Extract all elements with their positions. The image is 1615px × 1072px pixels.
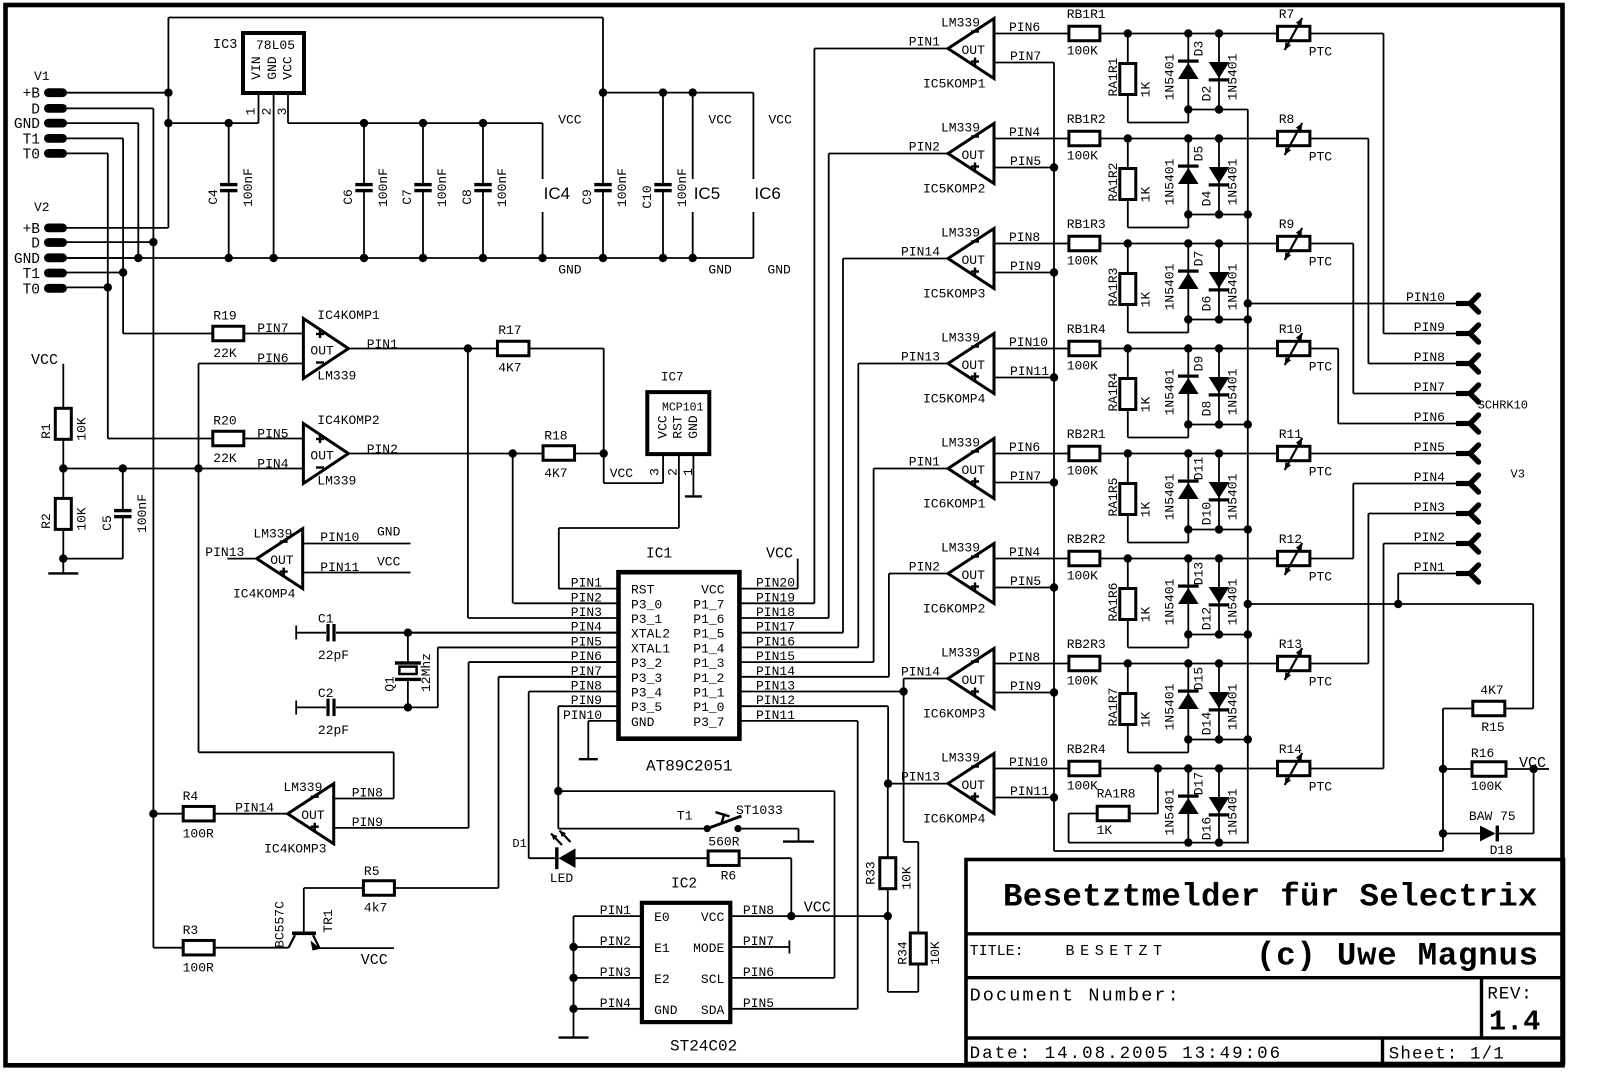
svg-text:3: 3 <box>275 108 290 116</box>
svg-text:VCC: VCC <box>708 112 732 127</box>
svg-text:100K: 100K <box>1067 149 1098 164</box>
svg-text:PIN6: PIN6 <box>257 351 288 366</box>
svg-text:10K: 10K <box>75 417 90 441</box>
svg-text:IC4KOMP2: IC4KOMP2 <box>317 413 379 428</box>
svg-text:VCC: VCC <box>281 56 296 80</box>
svg-text:OUT: OUT <box>962 778 986 793</box>
svg-text:LM339: LM339 <box>941 751 980 766</box>
svg-text:VCC: VCC <box>1519 755 1546 772</box>
svg-text:PIN8: PIN8 <box>1414 350 1445 365</box>
svg-text:GND: GND <box>708 263 732 278</box>
svg-text:LM339: LM339 <box>317 473 356 488</box>
svg-text:LM339: LM339 <box>941 646 980 661</box>
svg-text:Besetztmelder für Selectrix: Besetztmelder für Selectrix <box>1003 879 1538 916</box>
svg-text:1K: 1K <box>1139 292 1154 308</box>
svg-text:R33: R33 <box>863 861 878 884</box>
svg-text:2: 2 <box>666 468 681 476</box>
svg-text:PIN8: PIN8 <box>1009 230 1040 245</box>
svg-text:PTC: PTC <box>1309 150 1333 165</box>
svg-text:P1_7: P1_7 <box>693 597 724 612</box>
svg-text:R6: R6 <box>721 869 737 884</box>
svg-text:1N5401: 1N5401 <box>1226 473 1241 520</box>
svg-text:SCHRK10: SCHRK10 <box>1478 399 1528 413</box>
svg-text:R19: R19 <box>213 308 236 323</box>
svg-text:P3_4: P3_4 <box>631 686 662 701</box>
svg-text:C8: C8 <box>460 189 475 205</box>
svg-text:BESETZT: BESETZT <box>1066 943 1168 960</box>
svg-text:RST: RST <box>631 583 655 598</box>
svg-text:PIN10: PIN10 <box>1009 335 1048 350</box>
svg-text:RB1R2: RB1R2 <box>1067 112 1106 127</box>
svg-text:PIN1: PIN1 <box>1414 560 1445 575</box>
svg-text:100K: 100K <box>1471 779 1502 794</box>
svg-text:1K: 1K <box>1139 397 1154 413</box>
svg-text:D18: D18 <box>1490 843 1513 858</box>
svg-text:RA1R6: RA1R6 <box>1106 582 1121 621</box>
svg-text:PIN14: PIN14 <box>901 665 940 680</box>
svg-text:LED: LED <box>550 871 574 886</box>
svg-text:OUT: OUT <box>310 344 334 359</box>
svg-text:+B: +B <box>23 87 41 103</box>
svg-text:100K: 100K <box>1067 359 1098 374</box>
svg-text:D16: D16 <box>1199 817 1214 840</box>
svg-text:R18: R18 <box>544 428 567 443</box>
svg-text:10K: 10K <box>75 507 90 531</box>
svg-text:PIN7: PIN7 <box>1010 469 1041 484</box>
svg-text:RA1R5: RA1R5 <box>1106 477 1121 516</box>
svg-text:ST24C02: ST24C02 <box>670 1038 737 1056</box>
svg-text:PIN6: PIN6 <box>1009 440 1040 455</box>
svg-text:(c) Uwe Magnus: (c) Uwe Magnus <box>1256 938 1539 975</box>
svg-text:100nF: 100nF <box>376 168 391 207</box>
svg-text:D15: D15 <box>1192 667 1207 690</box>
svg-text:1N5401: 1N5401 <box>1163 263 1178 310</box>
svg-text:OUT: OUT <box>310 449 334 464</box>
svg-text:PIN9: PIN9 <box>1414 320 1445 335</box>
svg-text:100R: 100R <box>183 961 214 976</box>
svg-text:IC1: IC1 <box>646 547 672 563</box>
svg-text:GND: GND <box>631 715 655 730</box>
svg-text:PIN8: PIN8 <box>1009 650 1040 665</box>
svg-text:VCC: VCC <box>701 910 725 925</box>
svg-text:R34: R34 <box>896 941 911 965</box>
svg-text:PTC: PTC <box>1309 465 1333 480</box>
svg-text:C10: C10 <box>640 185 655 208</box>
svg-text:100K: 100K <box>1067 569 1098 584</box>
svg-text:R14: R14 <box>1279 742 1303 757</box>
svg-text:PIN2: PIN2 <box>909 140 940 155</box>
svg-text:100K: 100K <box>1067 674 1098 689</box>
svg-text:OUT: OUT <box>270 553 294 568</box>
svg-text:1N5401: 1N5401 <box>1226 263 1241 310</box>
svg-text:PIN1: PIN1 <box>367 337 398 352</box>
svg-text:E0: E0 <box>654 910 670 925</box>
svg-text:R16: R16 <box>1471 746 1494 761</box>
svg-text:GND: GND <box>14 117 40 133</box>
svg-text:VCC: VCC <box>701 583 725 598</box>
svg-text:R2: R2 <box>39 513 54 529</box>
svg-text:LM339: LM339 <box>283 780 322 795</box>
svg-text:RA1R1: RA1R1 <box>1106 57 1121 96</box>
svg-text:D3: D3 <box>1192 41 1207 57</box>
svg-text:VIN: VIN <box>249 56 264 79</box>
svg-text:IC6KOMP4: IC6KOMP4 <box>923 812 986 827</box>
svg-text:RB1R1: RB1R1 <box>1067 7 1106 22</box>
svg-text:T0: T0 <box>23 282 40 298</box>
svg-text:IC5KOMP3: IC5KOMP3 <box>923 287 985 302</box>
svg-text:IC6: IC6 <box>754 184 780 203</box>
svg-text:C1: C1 <box>318 612 334 627</box>
svg-text:VCC: VCC <box>766 546 793 563</box>
svg-text:P3_3: P3_3 <box>631 671 662 686</box>
svg-text:10K: 10K <box>928 941 943 965</box>
svg-text:XTAL1: XTAL1 <box>631 641 670 656</box>
svg-text:IC6KOMP1: IC6KOMP1 <box>923 497 986 512</box>
svg-text:PIN4: PIN4 <box>1009 125 1040 140</box>
svg-text:R9: R9 <box>1279 217 1295 232</box>
svg-text:V1: V1 <box>34 69 50 84</box>
svg-text:PIN11: PIN11 <box>1010 364 1049 379</box>
svg-text:R7: R7 <box>1279 7 1295 22</box>
svg-text:TR1: TR1 <box>321 909 336 933</box>
svg-text:Date: 14.08.2005 13:49:06: Date: 14.08.2005 13:49:06 <box>970 1044 1283 1064</box>
svg-text:P1_5: P1_5 <box>693 627 724 642</box>
svg-text:R11: R11 <box>1279 427 1303 442</box>
svg-text:RB1R4: RB1R4 <box>1067 322 1106 337</box>
svg-text:T1: T1 <box>677 808 693 823</box>
svg-text:IC6KOMP3: IC6KOMP3 <box>923 707 985 722</box>
svg-text:PIN11: PIN11 <box>1010 784 1049 799</box>
svg-text:R4: R4 <box>183 789 199 804</box>
svg-text:SDA: SDA <box>701 1003 725 1018</box>
svg-text:P1_3: P1_3 <box>693 656 724 671</box>
svg-text:C4: C4 <box>206 189 221 205</box>
svg-text:C9: C9 <box>580 189 595 205</box>
svg-text:PTC: PTC <box>1309 45 1333 60</box>
svg-text:PIN10: PIN10 <box>320 530 359 545</box>
svg-text:1N5401: 1N5401 <box>1163 368 1178 415</box>
svg-text:1N5401: 1N5401 <box>1163 53 1178 100</box>
svg-text:R17: R17 <box>498 323 521 338</box>
svg-text:OUT: OUT <box>962 463 986 478</box>
svg-text:C6: C6 <box>341 189 356 205</box>
svg-text:PIN8: PIN8 <box>352 786 383 801</box>
svg-text:D5: D5 <box>1192 146 1207 162</box>
svg-text:RA1R7: RA1R7 <box>1106 687 1121 726</box>
svg-text:PIN4: PIN4 <box>257 456 288 471</box>
svg-text:100R: 100R <box>183 827 214 842</box>
svg-text:OUT: OUT <box>962 253 986 268</box>
svg-text:4k7: 4k7 <box>364 901 387 916</box>
svg-text:1K: 1K <box>1139 82 1154 98</box>
svg-text:1K: 1K <box>1097 823 1113 838</box>
svg-text:PIN1: PIN1 <box>909 455 940 470</box>
svg-text:D4: D4 <box>1199 191 1214 207</box>
svg-text:100nF: 100nF <box>615 168 630 207</box>
svg-text:P1_4: P1_4 <box>693 641 724 656</box>
svg-text:P3_2: P3_2 <box>631 656 662 671</box>
svg-text:1K: 1K <box>1139 607 1154 623</box>
svg-text:PIN7: PIN7 <box>1010 49 1041 64</box>
svg-text:BAW 75: BAW 75 <box>1469 809 1516 824</box>
svg-text:D11: D11 <box>1192 457 1207 481</box>
svg-text:PIN6: PIN6 <box>1009 20 1040 35</box>
svg-text:P1_2: P1_2 <box>693 671 724 686</box>
svg-text:D17: D17 <box>1192 772 1207 795</box>
svg-text:1K: 1K <box>1139 502 1154 518</box>
svg-text:PIN1: PIN1 <box>909 35 940 50</box>
svg-text:PIN13: PIN13 <box>901 350 940 365</box>
svg-text:22K: 22K <box>213 346 237 361</box>
svg-text:IC5: IC5 <box>694 184 720 203</box>
svg-text:22pF: 22pF <box>318 723 349 738</box>
svg-text:R3: R3 <box>183 923 199 938</box>
svg-text:IC5KOMP2: IC5KOMP2 <box>923 182 985 197</box>
svg-text:R12: R12 <box>1279 532 1302 547</box>
svg-text:D12: D12 <box>1199 607 1214 630</box>
svg-text:78L05: 78L05 <box>256 38 295 53</box>
svg-text:LM339: LM339 <box>253 527 292 542</box>
svg-text:100K: 100K <box>1067 254 1098 269</box>
svg-text:GND: GND <box>558 263 582 278</box>
svg-text:BC557C: BC557C <box>273 901 288 948</box>
svg-text:PTC: PTC <box>1309 255 1333 270</box>
svg-text:D: D <box>31 237 40 253</box>
svg-text:PIN5: PIN5 <box>1010 574 1041 589</box>
svg-text:100nF: 100nF <box>135 494 150 533</box>
svg-text:IC4KOMP3: IC4KOMP3 <box>264 842 326 857</box>
svg-text:AT89C2051: AT89C2051 <box>646 758 732 776</box>
svg-text:560R: 560R <box>708 834 739 849</box>
svg-text:OUT: OUT <box>962 568 986 583</box>
svg-text:P1_1: P1_1 <box>693 686 724 701</box>
svg-text:PIN4: PIN4 <box>1009 545 1040 560</box>
svg-text:GND: GND <box>654 1003 678 1018</box>
svg-text:PIN9: PIN9 <box>1010 679 1041 694</box>
svg-text:LM339: LM339 <box>941 121 980 136</box>
svg-text:RB2R2: RB2R2 <box>1067 532 1106 547</box>
svg-text:V3: V3 <box>1511 468 1525 482</box>
svg-text:C2: C2 <box>318 686 334 701</box>
svg-text:R20: R20 <box>213 413 236 428</box>
svg-text:R8: R8 <box>1279 112 1295 127</box>
svg-text:IC2: IC2 <box>671 877 697 893</box>
svg-text:IC6KOMP2: IC6KOMP2 <box>923 602 985 617</box>
svg-text:D8: D8 <box>1199 401 1214 417</box>
svg-text:PIN5: PIN5 <box>1414 440 1445 455</box>
svg-text:GND: GND <box>265 56 280 80</box>
svg-text:100nF: 100nF <box>675 168 690 207</box>
svg-text:D6: D6 <box>1199 296 1214 312</box>
svg-text:REV:: REV: <box>1487 985 1532 1005</box>
svg-text:PIN10: PIN10 <box>1406 290 1445 305</box>
svg-text:1N5401: 1N5401 <box>1226 53 1241 100</box>
svg-text:1N5401: 1N5401 <box>1226 683 1241 730</box>
svg-text:IC4: IC4 <box>544 184 570 203</box>
svg-text:MODE: MODE <box>693 941 724 956</box>
svg-text:PIN4: PIN4 <box>1414 470 1445 485</box>
svg-text:RA1R3: RA1R3 <box>1106 267 1121 306</box>
svg-text:PIN9: PIN9 <box>1010 259 1041 274</box>
svg-text:PTC: PTC <box>1309 675 1333 690</box>
svg-text:T1: T1 <box>23 267 40 283</box>
svg-text:PIN3: PIN3 <box>1414 500 1445 515</box>
svg-text:R13: R13 <box>1279 637 1302 652</box>
svg-text:1N5401: 1N5401 <box>1163 158 1178 205</box>
svg-text:PTC: PTC <box>1309 780 1333 795</box>
svg-text:RA1R8: RA1R8 <box>1097 787 1136 802</box>
svg-text:RB2R4: RB2R4 <box>1067 742 1106 757</box>
svg-text:OUT: OUT <box>962 148 986 163</box>
svg-text:PIN2: PIN2 <box>367 442 398 457</box>
svg-text:PIN11: PIN11 <box>320 560 359 575</box>
svg-text:OUT: OUT <box>962 673 986 688</box>
svg-text:1.4: 1.4 <box>1489 1006 1540 1039</box>
svg-text:VCC: VCC <box>804 899 831 916</box>
svg-text:1K: 1K <box>1139 187 1154 203</box>
svg-text:4K7: 4K7 <box>1480 683 1503 698</box>
svg-text:E1: E1 <box>654 941 670 956</box>
svg-text:RB2R1: RB2R1 <box>1067 427 1106 442</box>
svg-text:R15: R15 <box>1481 720 1504 735</box>
svg-text:P3_1: P3_1 <box>631 612 662 627</box>
svg-text:Q1: Q1 <box>383 676 398 692</box>
svg-text:IC4KOMP4: IC4KOMP4 <box>233 587 296 602</box>
svg-text:PIN10: PIN10 <box>1009 755 1048 770</box>
svg-text:Document Number:: Document Number: <box>970 986 1181 1007</box>
svg-text:3: 3 <box>648 468 663 476</box>
svg-text:VCC: VCC <box>361 952 388 969</box>
svg-text:VCC: VCC <box>377 554 401 569</box>
svg-text:1N5401: 1N5401 <box>1226 578 1241 625</box>
svg-text:OUT: OUT <box>301 808 325 823</box>
svg-text:RA1R4: RA1R4 <box>1106 372 1121 411</box>
svg-text:LM339: LM339 <box>941 436 980 451</box>
svg-text:PIN2: PIN2 <box>1414 530 1445 545</box>
svg-text:R5: R5 <box>364 864 380 879</box>
svg-text:P3_7: P3_7 <box>693 715 724 730</box>
svg-text:TITLE:: TITLE: <box>970 943 1024 960</box>
svg-text:T0: T0 <box>23 147 40 163</box>
svg-text:D9: D9 <box>1192 356 1207 372</box>
svg-text:OUT: OUT <box>962 43 986 58</box>
svg-text:LM339: LM339 <box>941 226 980 241</box>
svg-text:4K7: 4K7 <box>544 466 567 481</box>
svg-text:Sheet: 1/1: Sheet: 1/1 <box>1389 1045 1505 1065</box>
svg-text:PTC: PTC <box>1309 360 1333 375</box>
svg-text:GND: GND <box>686 415 701 439</box>
svg-text:VCC: VCC <box>558 112 582 127</box>
svg-text:VCC: VCC <box>31 352 58 369</box>
svg-text:D14: D14 <box>1199 712 1214 736</box>
svg-text:PIN5: PIN5 <box>1010 154 1041 169</box>
svg-text:10K: 10K <box>899 866 914 890</box>
svg-text:IC5KOMP1: IC5KOMP1 <box>923 77 986 92</box>
svg-text:RA1R2: RA1R2 <box>1106 162 1121 201</box>
svg-text:PTC: PTC <box>1309 570 1333 585</box>
svg-text:100nF: 100nF <box>435 168 450 207</box>
svg-text:D7: D7 <box>1192 251 1207 267</box>
svg-text:GND: GND <box>14 252 40 268</box>
svg-text:22K: 22K <box>213 451 237 466</box>
svg-text:P1_0: P1_0 <box>693 700 724 715</box>
svg-text:2: 2 <box>260 108 275 116</box>
svg-text:1: 1 <box>244 107 259 115</box>
svg-text:LM339: LM339 <box>317 368 356 383</box>
svg-text:P1_6: P1_6 <box>693 612 724 627</box>
svg-text:D13: D13 <box>1192 562 1207 585</box>
svg-text:C7: C7 <box>400 189 415 205</box>
svg-text:1N5401: 1N5401 <box>1163 473 1178 520</box>
svg-text:GND: GND <box>377 525 401 540</box>
svg-text:PIN13: PIN13 <box>901 770 940 785</box>
svg-text:100nF: 100nF <box>241 168 256 207</box>
svg-text:+B: +B <box>23 222 41 238</box>
svg-text:V2: V2 <box>34 200 50 215</box>
svg-text:XTAL2: XTAL2 <box>631 627 670 642</box>
svg-text:12Mhz: 12Mhz <box>419 653 434 692</box>
svg-text:IC4KOMP1: IC4KOMP1 <box>317 308 380 323</box>
svg-text:T1: T1 <box>23 132 40 148</box>
svg-text:R10: R10 <box>1279 322 1302 337</box>
svg-text:100K: 100K <box>1067 779 1098 794</box>
svg-text:LM339: LM339 <box>941 541 980 556</box>
svg-text:PIN7: PIN7 <box>257 321 288 336</box>
svg-text:D: D <box>31 102 40 118</box>
svg-text:P3_0: P3_0 <box>631 597 662 612</box>
svg-text:1N5401: 1N5401 <box>1163 683 1178 730</box>
svg-text:VCC: VCC <box>610 466 634 481</box>
svg-text:GND: GND <box>767 263 791 278</box>
svg-text:VCC: VCC <box>769 112 793 127</box>
svg-text:1N5401: 1N5401 <box>1163 788 1178 835</box>
svg-text:IC7: IC7 <box>661 370 684 384</box>
svg-text:100K: 100K <box>1067 44 1098 59</box>
svg-text:ST1033: ST1033 <box>736 803 783 818</box>
svg-text:LM339: LM339 <box>941 16 980 31</box>
svg-text:C5: C5 <box>100 515 115 531</box>
svg-text:RST: RST <box>671 415 686 439</box>
svg-text:1N5401: 1N5401 <box>1226 158 1241 205</box>
svg-text:IC3: IC3 <box>213 38 237 53</box>
svg-text:MCP101: MCP101 <box>662 401 704 414</box>
svg-text:PIN9: PIN9 <box>352 815 383 830</box>
svg-text:4K7: 4K7 <box>498 361 521 376</box>
svg-text:100K: 100K <box>1067 464 1098 479</box>
svg-text:D10: D10 <box>1199 502 1214 525</box>
svg-text:PIN5: PIN5 <box>257 426 288 441</box>
svg-text:D2: D2 <box>1199 86 1214 102</box>
svg-text:D1: D1 <box>512 837 526 851</box>
svg-text:1N5401: 1N5401 <box>1163 578 1178 625</box>
svg-text:SCL: SCL <box>701 972 724 987</box>
svg-text:IC5KOMP4: IC5KOMP4 <box>923 392 986 407</box>
svg-text:1: 1 <box>681 468 696 476</box>
svg-text:PIN2: PIN2 <box>909 560 940 575</box>
svg-text:PIN7: PIN7 <box>1414 380 1445 395</box>
svg-text:22pF: 22pF <box>318 648 349 663</box>
svg-text:1K: 1K <box>1139 712 1154 728</box>
svg-text:RB1R3: RB1R3 <box>1067 217 1106 232</box>
svg-text:R1: R1 <box>39 423 54 439</box>
svg-text:1N5401: 1N5401 <box>1226 368 1241 415</box>
svg-text:RB2R3: RB2R3 <box>1067 637 1106 652</box>
svg-text:OUT: OUT <box>962 358 986 373</box>
svg-text:P3_5: P3_5 <box>631 700 662 715</box>
svg-text:LM339: LM339 <box>941 331 980 346</box>
svg-text:VCC: VCC <box>656 415 671 439</box>
svg-text:PIN14: PIN14 <box>901 245 940 260</box>
